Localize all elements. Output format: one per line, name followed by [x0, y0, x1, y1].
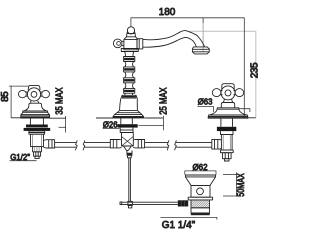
drain left hex (rod attachment, dark) [178, 200, 188, 206]
hub inner [31, 92, 37, 98]
drain collar [188, 197, 212, 200]
turned column with bead rings [122, 52, 135, 99]
spout attachment ring [137, 39, 143, 49]
svg-text:235: 235 [249, 62, 260, 78]
dimension 35 MAX (left handle clamping range) [59, 116, 66, 133]
center locknut (dark) [118, 124, 138, 127]
spout aerator outlet [192, 47, 209, 54]
drain threaded body (hatched) [191, 200, 210, 208]
svg-text:25 MAX: 25 MAX [159, 87, 170, 115]
center bell base (stepped) [113, 95, 144, 118]
left supply pipe with break [55, 140, 111, 150]
right shank below deck [221, 118, 233, 127]
svg-text:180: 180 [159, 7, 176, 18]
left valve bottom tail G1/2 [33, 147, 42, 159]
pop-up lift rod (vertical) [129, 158, 131, 202]
right valve body [221, 135, 232, 151]
left valve side hex fitting [44, 140, 55, 148]
center body tail cone and ring [124, 146, 133, 158]
left knob on body [113, 39, 124, 48]
right handle bell base [208, 103, 248, 119]
right lobe [42, 90, 50, 97]
dimension 180 (horizontal, top) [131, 18, 244, 118]
dimension 25 MAX (center column clamping range) [139, 116, 164, 130]
left handle shank below deck [30, 118, 43, 125]
cap [28, 85, 40, 90]
left lobe [19, 90, 27, 97]
dimension 85 (vertical, far left) [9, 86, 29, 118]
drain neck with hole [191, 185, 210, 197]
center collar under nut [120, 128, 133, 133]
center tee body with cross pattern [122, 133, 134, 147]
right locknut (dark) [217, 127, 236, 131]
left valve body [31, 134, 44, 146]
collar under body [121, 49, 138, 52]
svg-text:35 MAX: 35 MAX [55, 87, 66, 115]
lift rod clamp joint [128, 201, 132, 208]
left handle locknut (dark) [24, 125, 51, 131]
left valve collar [29, 131, 45, 134]
center left hex fitting [110, 140, 121, 148]
svg-text:G1 1/4": G1 1/4" [162, 220, 196, 231]
svg-text:Ø63: Ø63 [198, 98, 213, 107]
drain flange [185, 175, 215, 185]
svg-text:85: 85 [0, 91, 11, 102]
svg-text:50MAX: 50MAX [236, 173, 247, 197]
dimension 50MAX (right of drain) [223, 172, 237, 196]
right valve collar [221, 131, 234, 134]
deck (counter) surface lines [11, 117, 256, 119]
drain bottom outlet [191, 208, 210, 215]
left handle bell base [21, 103, 50, 118]
finial ball [127, 27, 136, 37]
spout body block [124, 37, 138, 50]
spout arm [143, 31, 205, 48]
right supply pipe with break [145, 140, 212, 150]
hub outer [27, 88, 40, 101]
arm connectors [26, 91, 28, 93]
right valve side hex fitting [212, 139, 222, 149]
label G1 1/4" with leader line [160, 217, 217, 219]
center right hex fitting [133, 140, 144, 148]
right valve bottom rings and tail [220, 150, 233, 161]
center shank below deck [121, 118, 133, 124]
gray flow guide line from spout outlet to right edge and down to deck [189, 31, 256, 118]
horizontal drain link rod [120, 202, 178, 205]
neck [31, 101, 39, 104]
